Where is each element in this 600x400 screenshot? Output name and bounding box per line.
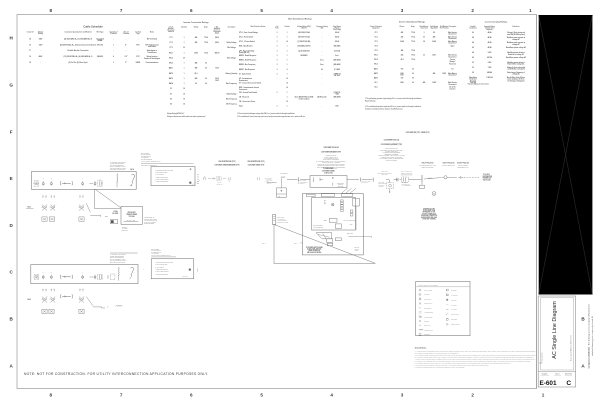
svg-text:CT-2: CT-2	[374, 36, 377, 38]
capacitor bank	[353, 198, 360, 206]
svg-text:7,000: 7,000	[488, 67, 492, 69]
black cover box	[539, 15, 593, 295]
svg-text:7: 7	[120, 8, 123, 13]
ESS breaker pair 2	[227, 177, 229, 180]
lower MV cable continuation squiggle	[116, 305, 123, 308]
revision marker circle	[432, 192, 436, 196]
svg-text:5: 5	[260, 8, 263, 13]
legend symbol L2	[419, 294, 421, 296]
svg-text:(3) 15kV/110kV BIL: (3) 15kV/110kV BIL	[298, 41, 311, 43]
legend symbol L1	[419, 289, 421, 291]
lower PV array enclosure	[31, 265, 138, 284]
svg-text:480V:12.47kV: 480V:12.47kV	[216, 184, 223, 186]
svg-text:Poles: Poles	[275, 28, 279, 30]
upper inverter group labels	[43, 196, 44, 197]
legend symbol L11	[419, 334, 421, 336]
breaker cubicle stack	[341, 200, 344, 202]
cover diagonal 2	[539, 15, 593, 295]
table: Cable Schedule	[27, 25, 161, 65]
svg-text:Size of: Size of	[124, 31, 129, 33]
ESS junction tick column	[197, 174, 199, 176]
utility pole symbol	[421, 175, 423, 182]
svg-text:1: 1	[113, 62, 114, 64]
legend symbol L7	[419, 316, 420, 317]
svg-text:16: 16	[183, 93, 185, 95]
svg-text:16: 16	[29, 56, 31, 58]
svg-text:8: 8	[50, 392, 53, 397]
svg-text:3.5": 3.5"	[125, 56, 128, 58]
svg-text:969.0: 969.0	[215, 42, 219, 44]
legend symbol R4	[446, 304, 448, 306]
svg-text:CT-3: CT-3	[169, 47, 172, 49]
svg-text:30: 30	[183, 47, 185, 49]
title block frame	[538, 296, 575, 387]
svg-text:Inverter Connection Ratings: Inverter Connection Ratings	[183, 21, 208, 24]
svg-text:60: 60	[205, 83, 207, 85]
svg-text:3: 3	[401, 392, 404, 397]
lower aux cluster	[107, 275, 109, 279]
svg-text:60: 60	[205, 78, 207, 80]
svg-text:6 FIRE SUPPRESSION: 6 FIRE SUPPRESSION	[156, 181, 169, 183]
svg-text:FUSE CUTOUT: FUSE CUTOUT	[451, 314, 459, 316]
signature squiggle	[539, 362, 542, 363]
pole disconnect cluster	[372, 178, 374, 182]
bus continues	[386, 179, 389, 181]
svg-text:60: 60	[412, 68, 414, 70]
upper pad transformer T1	[42, 206, 44, 208]
legend symbol R5	[446, 309, 448, 311]
bus device tick	[297, 177, 299, 181]
svg-text:G: G	[9, 82, 13, 87]
column numbers top	[50, 8, 533, 13]
svg-text:CLOUD COVERING: CLOUD COVERING	[386, 159, 397, 161]
svg-text:INVERTER: INVERTER	[451, 290, 457, 292]
svg-text:38: 38	[423, 41, 425, 43]
lower ESS aux device	[189, 269, 191, 271]
lower bracket inductor 2	[60, 295, 63, 298]
svg-text:METER SOCKET: METER SOCKET	[451, 324, 460, 326]
svg-text:CIRCUIT BKR: CIRCUIT BKR	[424, 299, 431, 301]
svg-text:UTILITY METER: UTILITY METER	[424, 290, 432, 292]
drop from bus to metering	[280, 178, 282, 188]
svg-text:(7 NBR) 52: (7 NBR) 52	[333, 73, 340, 75]
svg-text:2080: 2080	[400, 82, 403, 84]
svg-text:Company Confidential - This dr: Company Confidential - This drawing in p…	[588, 303, 591, 368]
svg-text:PM: PM	[278, 195, 280, 197]
svg-text:30.00: 30.00	[215, 78, 219, 80]
table: Inverter Connection Ratings	[167, 21, 237, 118]
lower skid box IC-1	[42, 309, 47, 313]
svg-text:DISTRIBUTION: DISTRIBUTION	[483, 176, 492, 178]
svg-text:E-601: E-601	[539, 380, 556, 387]
title box	[541, 298, 574, 370]
legend symbol R2	[446, 294, 448, 296]
svg-text:308'-6": 308'-6"	[294, 242, 298, 244]
svg-text:575: 575	[401, 77, 404, 79]
switchgear yard fence	[302, 194, 363, 255]
svg-text:CT-5: CT-5	[374, 50, 377, 52]
lower CT squiggle	[118, 267, 121, 276]
svg-text:MV 105: MV 105	[97, 44, 103, 46]
svg-text:6": 6"	[125, 44, 127, 46]
svg-text:52-1: 52-1	[375, 82, 378, 84]
svg-text:(7.5kV) 52-: (7.5kV) 52-	[333, 92, 341, 94]
legend symbol L6	[419, 311, 421, 313]
disconnect dashes	[458, 176, 460, 178]
svg-text:DIRECT BURIED: DIRECT BURIED	[144, 223, 154, 225]
table: Inverter Switchboard Ratings	[365, 21, 457, 111]
svg-text:Transformer: Transformer	[147, 52, 157, 54]
svg-text:CT-1: CT-1	[374, 32, 377, 34]
svg-text:16: 16	[183, 88, 185, 90]
svg-text:INV-2: INV-2	[169, 57, 173, 59]
lower breaker CB-2	[50, 275, 52, 276]
upper CT squiggle	[116, 174, 119, 183]
svg-text:RECLOSER: RECLOSER	[451, 319, 457, 321]
svg-text:G2: G2	[170, 98, 172, 100]
lower PV module symbol	[34, 274, 39, 279]
POI riser pole box	[273, 215, 276, 225]
legend symbol L4	[419, 302, 421, 304]
CPT boxes	[350, 210, 353, 213]
relay boxes	[329, 219, 337, 223]
svg-text:18: 18	[29, 62, 31, 64]
svg-text:PCC RECLOSER: PCC RECLOSER	[323, 168, 333, 170]
svg-text:2080: 2080	[400, 73, 403, 75]
svg-text:Inverter Switchboard Ratings: Inverter Switchboard Ratings	[399, 21, 425, 24]
svg-text:C: C	[566, 380, 571, 387]
svg-text:CUSTOMER OWNED (TYP): CUSTOMER OWNED (TYP)	[248, 165, 265, 167]
lower PV notes text	[110, 252, 138, 254]
svg-text:89: 89	[433, 32, 435, 34]
upper breaker CB-3	[82, 181, 84, 182]
pole base box	[420, 185, 425, 188]
upper breaker CB-2	[50, 181, 52, 182]
primary metering box	[276, 188, 286, 197]
svg-text:SEL-700G 25 27/59 81: SEL-700G 25 27/59 81	[344, 220, 356, 222]
svg-text:5000: 5000	[215, 80, 219, 82]
svg-text:EQUIPMENT (TYP): EQUIPMENT (TYP)	[457, 167, 469, 169]
svg-text:60: 60	[412, 77, 414, 79]
svg-text:16: 16	[286, 101, 288, 103]
main bus wire left segment	[287, 179, 298, 181]
lower breaker CB-1	[42, 275, 44, 276]
svg-text:52: 52	[472, 62, 474, 64]
svg-text:1: 1	[529, 8, 532, 13]
svg-text:G1: G1	[170, 93, 172, 95]
lower breaker CB-3	[82, 275, 84, 276]
svg-text:UTILITY OWNED: UTILITY OWNED	[458, 165, 468, 167]
ground resistor boxes	[327, 239, 333, 243]
not for construction note	[24, 372, 208, 376]
row letters left	[9, 36, 13, 369]
ESS breaker pair 1	[203, 177, 205, 180]
svg-text:1,087: 1,087	[432, 55, 436, 57]
svg-text:DISCONNECT: DISCONNECT	[424, 307, 432, 309]
svg-text:XHHW-2: XHHW-2	[97, 56, 103, 58]
table: Main Switchboard Ratings	[237, 18, 341, 119]
upper pad transformer T2	[51, 206, 53, 208]
svg-text:60: 60	[205, 63, 207, 65]
svg-text:OWNED (TYP): OWNED (TYP)	[421, 132, 430, 134]
feeder risers into yard	[341, 188, 347, 194]
svg-text:F: F	[10, 129, 13, 134]
svg-text:58: 58	[472, 72, 474, 74]
property fence west line	[273, 225, 275, 264]
svg-text:575: 575	[401, 68, 404, 70]
lower pad transformer T2	[51, 298, 53, 300]
svg-text:CURRENT XFMR: CURRENT XFMR	[424, 330, 433, 332]
svg-text:15: 15	[29, 44, 31, 46]
svg-text:MV Underground: MV Underground	[146, 44, 159, 46]
pole riser squiggle	[428, 177, 432, 180]
svg-text:CT-3: CT-3	[374, 41, 377, 43]
svg-text:2: 2	[471, 8, 474, 13]
upper recloser cluster	[90, 183, 94, 185]
svg-text:PV MODULE: PV MODULE	[451, 295, 458, 297]
cover diagonal 1	[539, 15, 593, 295]
legend box	[416, 282, 470, 336]
upper PV array enclosure	[31, 172, 136, 190]
svg-text:5,000: 5,000	[488, 52, 492, 54]
lower pad transformer T3	[79, 298, 81, 300]
svg-text:3000: 3000	[400, 75, 403, 77]
lower surge arrester	[131, 267, 134, 276]
svg-text:2: 2	[471, 392, 474, 397]
svg-text:attached drawing print is expr: attached drawing print is expressly issu…	[591, 316, 594, 356]
svg-text:STUDY (BY OTHERS): STUDY (BY OTHERS)	[422, 219, 436, 221]
svg-text:SEE E-603: SEE E-603	[183, 276, 189, 278]
svg-text:1,988: 1,988	[442, 73, 446, 75]
lower skid box IC-3	[79, 309, 84, 313]
svg-text:INV-3: INV-3	[374, 64, 378, 66]
svg-text:MV-2: MV-2	[28, 299, 32, 301]
svg-text:5: 5	[260, 392, 263, 397]
svg-text:E: E	[10, 176, 13, 181]
upper MV riser diagonal	[95, 189, 121, 208]
svg-text:INV-2: INV-2	[374, 59, 378, 61]
svg-text:30: 30	[183, 57, 185, 59]
svg-text:Type: Type	[136, 33, 140, 35]
svg-text:SEL-651R: SEL-651R	[338, 185, 344, 187]
aux box below	[335, 224, 341, 228]
svg-text:Main Switchboard Ratings: Main Switchboard Ratings	[288, 18, 312, 21]
ESS breaker pair 3	[256, 177, 258, 180]
svg-text:52-2: 52-2	[375, 87, 378, 89]
ESS aux device	[189, 182, 191, 184]
svg-text:GROUND: GROUND	[424, 321, 429, 323]
svg-text:General Notes:: General Notes:	[415, 347, 427, 350]
svg-text:4: 4	[330, 8, 333, 13]
grounding transformer polygon	[316, 233, 332, 239]
svg-text:6: 6	[190, 392, 193, 397]
svg-text:16: 16	[286, 83, 288, 85]
svg-text:Rev #: Rev #	[555, 374, 559, 376]
svg-text:7: 7	[120, 392, 123, 397]
lower ESS equipment list box	[151, 259, 194, 279]
svg-text:CT-2: CT-2	[169, 42, 172, 44]
svg-text:BKR87 - Bus Response: BKR87 - Bus Response	[239, 69, 255, 71]
svg-text:50/51: 50/51	[324, 220, 327, 222]
yard entrance boxes	[306, 194, 315, 197]
overhead span diagonal	[274, 225, 375, 264]
svg-text:G3: G3	[170, 104, 172, 106]
svg-text:GEN: GEN	[350, 224, 353, 226]
legend symbol L10	[419, 329, 423, 331]
svg-text:Cable Schedule: Cable Schedule	[83, 25, 103, 29]
ESS equipment list box	[151, 167, 195, 186]
svg-text:2": 2"	[125, 62, 127, 64]
svg-text:5,000: 5,000	[488, 62, 492, 64]
svg-text:HDPE: HDPE	[136, 62, 140, 64]
svg-text:CUSTOMER OWNED: CUSTOMER OWNED	[277, 221, 288, 223]
svg-text:Dwg No: Dwg No	[542, 374, 548, 376]
OH line continuation to meter pole	[424, 178, 441, 179]
svg-text:MV-1: MV-1	[28, 206, 32, 208]
svg-text:UTILITY POLE #13: UTILITY POLE #13	[443, 163, 455, 165]
legend symbol R3	[446, 299, 448, 301]
svg-text:60: 60	[412, 73, 414, 75]
lower collection wire	[86, 297, 93, 306]
upper inverter skid box IC-3	[79, 217, 84, 221]
dwg no labels row	[538, 370, 575, 372]
fuse cutout cluster 2	[400, 179, 402, 181]
property fence south line	[274, 263, 375, 265]
svg-text:250'-0": 250'-0"	[262, 243, 266, 245]
svg-text:CUSTOMER EQUIPMENT (TYP): CUSTOMER EQUIPMENT (TYP)	[381, 144, 403, 146]
legend symbol R1	[446, 289, 448, 291]
legend symbol R7	[446, 319, 448, 321]
column numbers bottom	[50, 392, 545, 397]
switchgear bus ticks	[324, 200, 326, 202]
lower inverter group labels	[43, 289, 44, 290]
utility meter circle	[444, 176, 447, 179]
svg-text:Current Carrying Ratings: Current Carrying Ratings	[485, 21, 508, 24]
lower feeder inductor	[60, 275, 63, 278]
svg-text:CUSTOMER OWNED: CUSTOMER OWNED	[322, 170, 335, 172]
svg-text:POI POINT: POI POINT	[451, 299, 457, 301]
svg-text:POI LIMIT: 3,330 kW: POI LIMIT: 3,330 kW	[141, 159, 153, 161]
svg-text:60: 60	[195, 83, 197, 85]
legend symbol L3	[419, 298, 421, 300]
legend symbol L9	[419, 325, 421, 326]
upper surge arrester	[132, 174, 135, 183]
svg-text:33: 33	[423, 36, 425, 38]
ESS bus wire	[208, 178, 212, 180]
svg-text:1,988: 1,988	[432, 82, 436, 84]
svg-text:Grounded: Grounded	[96, 38, 104, 40]
svg-text:60: 60	[412, 82, 414, 84]
svg-text:17: 17	[29, 50, 31, 52]
svg-text:16: 16	[286, 87, 288, 89]
svg-text:RUPTER: RUPTER	[379, 186, 384, 188]
svg-text:INV-3: INV-3	[169, 63, 173, 65]
svg-text:1200: 1200	[335, 106, 338, 108]
svg-text:COMBINER: COMBINER	[424, 334, 430, 336]
station service transformer small	[110, 220, 117, 224]
svg-text:AC Single Line Diagram: AC Single Line Diagram	[552, 301, 558, 359]
upper inverter skid box IC-2	[49, 217, 54, 221]
confidential vertical text	[588, 303, 594, 368]
upper collection wire	[86, 203, 90, 212]
svg-text:1: 1	[113, 44, 114, 46]
recloser cabinet	[310, 176, 347, 188]
svg-text:UTILITY POLE #12: UTILITY POLE #12	[422, 163, 434, 165]
svg-text:Yes: Yes	[451, 68, 454, 70]
meter drop	[389, 180, 391, 183]
legend symbol R6	[446, 314, 448, 316]
svg-text:NOTE: NOT FOR CONSTRUCTION. FO: NOTE: NOT FOR CONSTRUCTION. FOR UTILITY …	[24, 372, 208, 376]
svg-text:EXISTING OH 1PH: EXISTING OH 1PH	[423, 208, 434, 210]
switchgear lineup	[312, 198, 356, 230]
svg-text:52: 52	[170, 88, 172, 90]
upper breaker CB-1	[42, 181, 44, 182]
svg-text:INV-1: INV-1	[169, 52, 173, 54]
svg-text:969.00: 969.00	[215, 52, 220, 54]
svg-text:16: 16	[183, 104, 185, 106]
svg-text:RISER W/ CUTOUTS: RISER W/ CUTOUTS	[421, 167, 433, 169]
upper PV module symbol	[34, 181, 39, 186]
svg-text:Phases: Phases	[400, 26, 405, 28]
svg-text:CT METER: CT METER	[424, 294, 430, 296]
svg-text:16: 16	[286, 41, 288, 43]
svg-text:FUSED SWITCH: FUSED SWITCH	[424, 303, 433, 305]
svg-text:72.00: 72.00	[215, 68, 219, 70]
legend symbol L8	[419, 320, 421, 322]
svg-text:60: 60	[205, 68, 207, 70]
svg-text:2,088: 2,088	[432, 41, 436, 43]
ESS feeder dashed link	[191, 180, 201, 186]
svg-text:6: 6	[190, 8, 193, 13]
bus wire to pole	[347, 179, 359, 181]
svg-text:52: 52	[472, 67, 474, 69]
svg-text:(BIL kV): (BIL kV)	[301, 28, 307, 30]
svg-text:2,088: 2,088	[400, 41, 404, 43]
lower pad transformer T1	[42, 298, 44, 300]
svg-text:969.0: 969.0	[215, 37, 219, 39]
svg-text:4: 4	[330, 392, 333, 397]
lower recloser cluster	[90, 276, 94, 278]
svg-text:120/240V SERVICE: 120/240V SERVICE	[401, 173, 412, 175]
svg-text:8: 8	[50, 8, 53, 13]
upper pad transformer T3	[79, 206, 81, 208]
legend symbol R8	[446, 323, 448, 325]
drawing border right edge line	[535, 15, 537, 389]
switchgear breaker symbol	[331, 203, 334, 206]
svg-text:2080: 2080	[194, 52, 198, 54]
svg-text:33: 33	[423, 55, 425, 57]
table: Current Carrying Ratings	[467, 21, 526, 86]
legend symbol L5	[419, 307, 421, 309]
ESS transformer cluster	[212, 178, 213, 179]
svg-text:6 FIRE SUPPRESSION: 6 FIRE SUPPRESSION	[156, 273, 169, 275]
svg-text:SS XFMR: SS XFMR	[112, 213, 118, 215]
svg-text:16: 16	[286, 78, 288, 80]
svg-text:16: 16	[183, 98, 185, 100]
upper MV riser wire vertical	[93, 189, 95, 208]
upper inverter skid box IC-1	[42, 217, 47, 221]
upper feeder inductor	[60, 182, 63, 185]
svg-text:MV Overhead: MV Overhead	[147, 38, 157, 40]
lower skid box IC-2	[49, 309, 54, 313]
svg-text:3: 3	[401, 8, 404, 13]
svg-text:INV-1: INV-1	[374, 55, 378, 57]
svg-text:1: 1	[542, 392, 545, 397]
GSU pad mount transformer	[121, 206, 142, 224]
row letters right (B and A)	[581, 317, 585, 369]
svg-text:CT-1: CT-1	[169, 37, 172, 39]
